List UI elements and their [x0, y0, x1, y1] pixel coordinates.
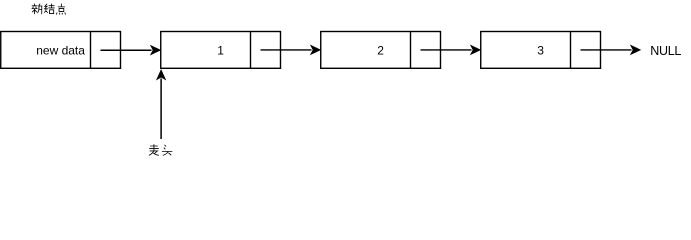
wire: arrow node 2 -> node 3 [421, 46, 481, 55]
svg-text:new data: new data [36, 44, 85, 58]
node box: 3 [481, 32, 601, 69]
label: 表头 (list head) [149, 145, 172, 156]
node box: 2 [321, 32, 441, 69]
node box: 1 [161, 32, 281, 69]
node box: new data [1, 32, 121, 69]
wire: arrow node 1 -> node 2 [261, 46, 321, 55]
label: 新结点 (new node) [32, 4, 66, 14]
svg-text:3: 3 [537, 44, 544, 58]
svg-text:NULL: NULL [650, 44, 681, 58]
表 [149, 145, 158, 156]
svg-text:2: 2 [377, 44, 384, 58]
svg-text:1: 1 [217, 44, 224, 58]
头 [162, 145, 172, 155]
wire: head pointer up-arrow [157, 70, 165, 139]
新 [32, 4, 42, 14]
点 [56, 4, 65, 14]
wire: arrow node 3 -> NULL [581, 46, 641, 55]
结 [44, 4, 54, 14]
wire: arrow new data -> node 1 [101, 46, 161, 55]
